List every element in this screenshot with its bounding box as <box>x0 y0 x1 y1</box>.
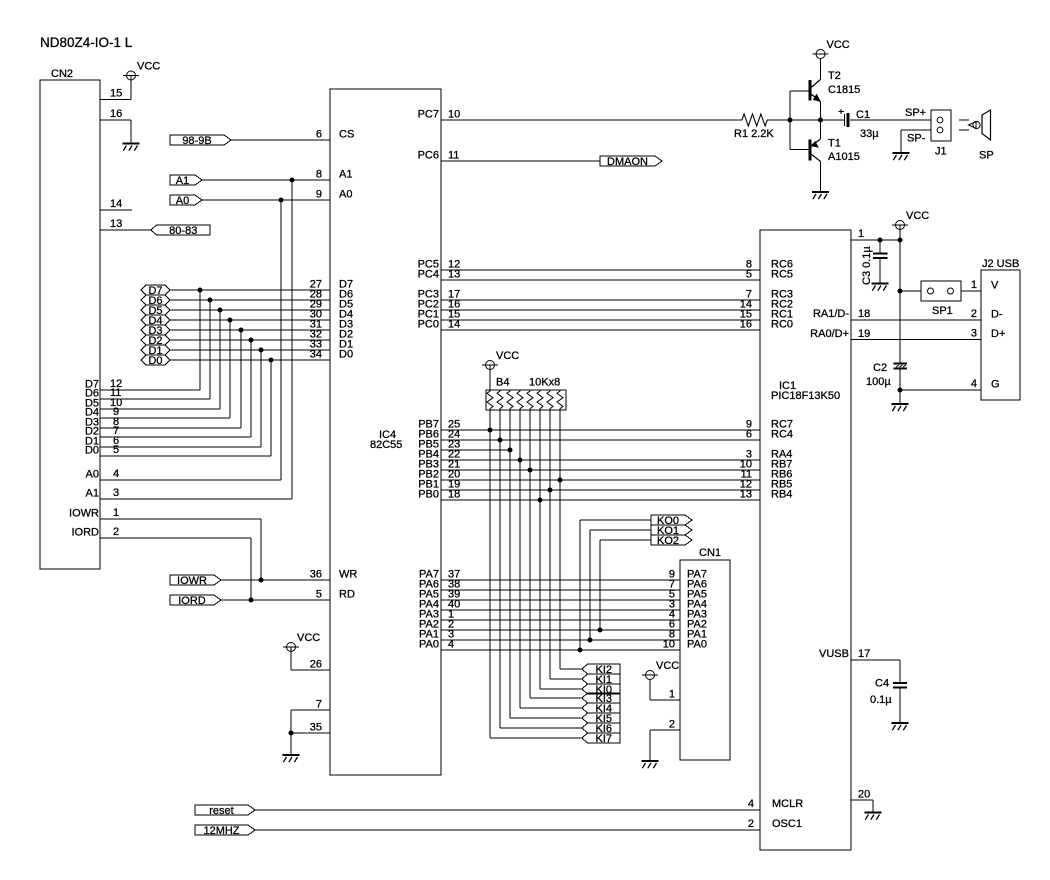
net label 12MHZ <box>195 825 255 837</box>
svg-text:IOWR: IOWR <box>69 508 99 520</box>
svg-text:SP1: SP1 <box>932 305 953 317</box>
svg-text:4: 4 <box>748 798 754 810</box>
svg-text:A1: A1 <box>339 169 352 181</box>
IC1 pin 5 (RC5) <box>746 269 793 281</box>
svg-text:33µ: 33µ <box>860 128 879 140</box>
IC4 pin 1 (PA3) <box>419 609 454 621</box>
wire B4 column x550 <box>549 410 551 679</box>
wire T2 emitter down <box>820 102 822 121</box>
IC4 pin 14 (PC0) <box>418 319 461 331</box>
capacitor C3 0.1u <box>861 240 888 285</box>
wire PA2 to CN1 <box>441 629 680 631</box>
wire T2 collector to VCC <box>820 59 822 80</box>
IC1 pin 3 (RA4) <box>746 449 793 461</box>
J2 pin 3 (D+) <box>971 328 1006 341</box>
junction R1/base <box>788 118 793 123</box>
wire KI7 <box>490 737 582 739</box>
wire D1 vertical <box>260 350 262 447</box>
IC U-IC1 PIC18F13K50 body <box>760 230 851 850</box>
wire to SP1 <box>900 290 921 292</box>
svg-text:IOWR: IOWR <box>177 575 207 587</box>
net label KI3 <box>582 693 620 705</box>
net label KI5 <box>582 713 620 725</box>
ground (SP-) <box>893 153 910 160</box>
svg-text:A1015: A1015 <box>828 151 860 163</box>
wire SP- from J1 <box>901 130 931 153</box>
CN2 pin 16 <box>100 108 131 120</box>
net label D5 <box>141 305 170 317</box>
connector SP1 <box>921 281 961 317</box>
svg-text:100µ: 100µ <box>866 376 891 388</box>
svg-text:A0: A0 <box>339 189 352 201</box>
IC4 pin 7 <box>316 699 322 711</box>
IC4 pin 21 (PB3) <box>418 459 460 471</box>
net label 98-9B <box>170 135 231 147</box>
svg-text:CN2: CN2 <box>51 68 73 80</box>
resistor R1 2.2K <box>734 114 774 140</box>
connector CN1 <box>680 547 730 760</box>
svg-text:MCLR: MCLR <box>772 798 803 810</box>
svg-text:T2: T2 <box>828 70 841 82</box>
wire SP1 to J2 pin1 <box>961 290 981 292</box>
svg-text:14: 14 <box>110 198 122 210</box>
wire KI6 <box>500 727 582 729</box>
CN2 pin 3 (A1) <box>86 487 292 500</box>
wire PC3-RC3 <box>441 299 760 301</box>
svg-text:CS: CS <box>339 129 354 141</box>
wire PC0-RC0 <box>441 329 760 331</box>
wire B4 column x490 <box>489 410 491 738</box>
svg-text:WR: WR <box>339 569 357 581</box>
IC4 pin 20 (PB2) <box>418 469 460 481</box>
svg-text:3: 3 <box>971 328 977 340</box>
wire KO2 <box>600 540 651 630</box>
wire PB7-RC7 <box>441 429 760 431</box>
svg-text:VCC: VCC <box>496 350 519 362</box>
svg-text:16: 16 <box>110 108 122 120</box>
speaker SP symbol <box>959 110 994 162</box>
junction D6 <box>208 298 213 303</box>
svg-text:10Kx8: 10Kx8 <box>529 377 560 389</box>
svg-text:26: 26 <box>310 659 322 671</box>
CN1 pin 8 (PA1) <box>669 629 707 641</box>
svg-text:IORD: IORD <box>178 595 206 607</box>
VCC symbol (IC1) <box>892 210 929 230</box>
IC4 pin 40 (PA4) <box>419 599 460 611</box>
wire T2 base <box>790 90 809 92</box>
svg-text:1: 1 <box>113 507 119 519</box>
connector J1 <box>931 110 951 158</box>
wire D5 vertical <box>219 310 221 409</box>
junction IC4 pin35 <box>289 731 294 736</box>
IC1 pin 17 (VUSB) <box>819 648 870 660</box>
IC1 pin 12 (RB5) <box>740 479 793 491</box>
svg-text:VCC: VCC <box>137 61 160 73</box>
svg-text:0.1µ: 0.1µ <box>870 694 892 706</box>
svg-text:SP: SP <box>979 150 994 162</box>
svg-text:VCC: VCC <box>656 660 679 672</box>
svg-text:D-: D- <box>991 309 1003 321</box>
wire RA1/D- to J2 <box>851 319 981 321</box>
svg-text:C1815: C1815 <box>828 84 860 96</box>
svg-text:SP+: SP+ <box>905 107 926 119</box>
CN2 pin 5 (D0) <box>85 444 271 457</box>
CN2 pin 13 <box>100 218 151 230</box>
svg-text:4: 4 <box>113 468 119 480</box>
svg-text:15: 15 <box>110 88 122 100</box>
ground (C4) <box>892 723 909 730</box>
IC4 pin 18 (PB0) <box>418 489 460 501</box>
svg-text:D0: D0 <box>148 355 162 367</box>
wire PC6 to DMAON <box>441 160 600 162</box>
svg-text:1: 1 <box>971 279 977 291</box>
svg-text:PB0: PB0 <box>418 489 439 501</box>
svg-text:A1: A1 <box>176 175 189 187</box>
svg-text:PC6: PC6 <box>418 150 439 162</box>
ground (CN1 pin 2) <box>642 761 659 768</box>
svg-text:35: 35 <box>310 722 322 734</box>
CN2 pin 6 (D1) <box>85 435 261 448</box>
net label D2 <box>141 335 170 347</box>
net label KI7 <box>582 733 620 745</box>
VCC symbol (B4) <box>482 350 519 370</box>
ground (IC1 pin 20) <box>865 813 882 820</box>
junction PA1/KO1 <box>588 638 593 643</box>
wire T1 base <box>790 149 809 151</box>
CN2 pin 4 (A0) <box>86 468 281 481</box>
svg-text:6: 6 <box>746 429 752 441</box>
svg-text:5: 5 <box>746 269 752 281</box>
svg-text:98-9B: 98-9B <box>182 135 211 147</box>
wire B4 column x560 <box>559 410 561 669</box>
VCC symbol (CN1 pin 1) <box>642 660 679 680</box>
wire KI4 <box>520 707 582 709</box>
net label D0 <box>141 355 170 367</box>
IC4 pin 2 (PA2) <box>419 619 454 631</box>
svg-text:34: 34 <box>310 349 322 361</box>
net label KO1 <box>651 525 692 537</box>
net label KI4 <box>582 703 620 715</box>
junction emitters <box>818 118 823 123</box>
svg-text:13: 13 <box>740 489 752 501</box>
wire KI3 <box>530 697 582 699</box>
CN2 pin 7 (D2) <box>85 425 251 438</box>
svg-text:R1 2.2K: R1 2.2K <box>734 128 774 140</box>
IC4 pin 6 (CS) <box>316 129 354 141</box>
net label D1 <box>141 345 170 357</box>
J2 pin 4 (G) <box>971 378 1000 391</box>
wire KI2 <box>560 668 582 670</box>
CN1 pin 7 (PA6) <box>669 579 707 591</box>
IC1 pin 18 (RA1/D-) <box>813 308 870 320</box>
IC4 pin 19 (PB1) <box>418 479 460 491</box>
junction SP1 tap <box>898 289 903 294</box>
svg-text:V: V <box>991 280 999 292</box>
svg-text:VCC: VCC <box>297 632 320 644</box>
wire D6 to IC4 pin 28 <box>170 299 330 301</box>
IC4 pin 30 (D4) <box>310 309 353 321</box>
svg-text:RD: RD <box>339 589 355 601</box>
CN1 pin 4 (PA3) <box>669 609 707 621</box>
svg-text:7: 7 <box>316 699 322 711</box>
svg-text:reset: reset <box>209 805 233 817</box>
junction A1 <box>290 178 295 183</box>
svg-text:12MHZ: 12MHZ <box>203 825 239 837</box>
wire A1 vertical <box>291 180 293 499</box>
CN1 pin 10 (PA0) <box>663 639 707 651</box>
net label A0 <box>170 195 202 207</box>
ground (C3) <box>872 284 889 291</box>
svg-text:RC5: RC5 <box>771 269 793 281</box>
wire PA0 to CN1 <box>441 649 680 651</box>
wire 98-9B to CS <box>231 139 330 141</box>
net label DMAON <box>600 156 662 168</box>
svg-text:D0: D0 <box>339 349 353 361</box>
svg-text:VCC: VCC <box>906 210 929 222</box>
svg-text:C4: C4 <box>875 678 889 690</box>
wire A1 to IC4 pin 8 <box>202 179 330 181</box>
svg-text:PC4: PC4 <box>418 269 439 281</box>
transistor T1 A1015 <box>810 138 860 164</box>
wire IORD vertical <box>250 538 252 600</box>
svg-text:1: 1 <box>669 689 675 701</box>
VCC symbol (IC4 pin 26) <box>283 632 320 652</box>
svg-text:VCC: VCC <box>827 39 850 51</box>
IC U-IC4 82C55 body <box>330 89 441 775</box>
svg-text:ND80Z4-IO-1 L: ND80Z4-IO-1 L <box>40 35 133 50</box>
wire A0 vertical <box>280 200 282 480</box>
wire B4 column x520 <box>519 410 521 708</box>
junction A0 <box>279 198 284 203</box>
wire KI1 <box>550 678 582 680</box>
net label KI0 <box>582 684 620 696</box>
wire D1 to IC4 pin 33 <box>170 349 330 351</box>
net SP- label <box>907 133 926 145</box>
IC1 pin 15 (RC1) <box>740 309 793 321</box>
wire pin16 to ground <box>130 120 132 144</box>
wire reset to MCLR <box>255 809 760 811</box>
wire D4 vertical <box>229 320 231 418</box>
connector CN2 <box>40 68 100 569</box>
title ND80Z4-IO-1 L <box>40 35 133 50</box>
capacitor C4 0.1u <box>870 678 907 707</box>
svg-text:C1: C1 <box>856 109 870 121</box>
IC4 pin 3 (PA1) <box>419 629 454 641</box>
svg-text:8: 8 <box>316 169 322 181</box>
CN2 pin 11 (D6) <box>85 387 210 400</box>
wire B4 column x510 <box>509 410 511 718</box>
connector J2 USB <box>981 258 1020 400</box>
svg-text:J1: J1 <box>935 146 947 158</box>
svg-text:RC0: RC0 <box>771 319 793 331</box>
junction D7 <box>198 288 203 293</box>
svg-text:1: 1 <box>858 228 864 240</box>
svg-text:RA1/D-: RA1/D- <box>813 308 849 320</box>
net label IORD <box>170 595 221 607</box>
IC1 pin 9 (RC7) <box>746 419 793 431</box>
IC4 pin 10 (PC7) <box>418 109 461 121</box>
wire T1 collector down <box>820 162 822 192</box>
svg-text:10: 10 <box>663 639 675 651</box>
CN2 pin 10 (D5) <box>85 397 220 410</box>
junction D4 <box>228 318 233 323</box>
IC4 pin 9 (A0) <box>316 189 353 201</box>
wire D0 vertical <box>270 360 272 456</box>
wire D6 vertical <box>209 300 211 399</box>
junction PA2/KO2 <box>598 628 603 633</box>
J2 pin 2 (D-) <box>971 308 1003 321</box>
J2 pin 1 (V) <box>971 279 999 292</box>
svg-text:3: 3 <box>113 487 119 499</box>
IC4 pin 24 (PB6) <box>418 429 460 441</box>
CN1 pin 3 (PA4) <box>669 599 707 611</box>
wire IOWR to IC4 pin 36 <box>221 579 330 581</box>
svg-text:9: 9 <box>316 189 322 201</box>
svg-text:OSC1: OSC1 <box>772 818 802 830</box>
svg-text:PA0: PA0 <box>419 639 439 651</box>
svg-text:C3 0.1µ: C3 0.1µ <box>861 246 873 285</box>
wire D0 to IC4 pin 34 <box>170 359 330 361</box>
IC4 pin 4 (PA0) <box>419 639 454 651</box>
VCC symbol (CN2 pin 15) <box>123 61 160 81</box>
wire PB3-RB7 <box>441 469 760 471</box>
wire IC4 pin 7 to ground <box>291 710 330 755</box>
wire PC5-RC6 <box>441 269 760 271</box>
wire PB6-RC4 <box>441 439 760 441</box>
IC4 pin 32 (D2) <box>310 329 353 341</box>
wire PB5 stub <box>441 449 510 451</box>
wire B4 column x530 <box>529 410 531 698</box>
wire PA5 to CN1 <box>441 599 680 601</box>
junction PB7/KI7 <box>488 428 493 433</box>
svg-text:16: 16 <box>740 319 752 331</box>
IC1 pin 13 (RB4) <box>740 489 793 501</box>
junction C3 tap <box>878 238 883 243</box>
wire VUSB to C4 <box>851 660 900 682</box>
IC4 pin 13 (PC4) <box>418 269 461 281</box>
svg-text:G: G <box>991 379 1000 391</box>
wire PC7 to R1 <box>441 119 742 121</box>
svg-text:A0: A0 <box>86 469 99 481</box>
wire D5 to IC4 pin 29 <box>170 309 330 311</box>
CN2 pin 8 (D3) <box>85 416 241 429</box>
svg-text:20: 20 <box>858 789 870 801</box>
svg-text:5: 5 <box>113 444 119 456</box>
IC4 pin 28 (D6) <box>310 289 353 301</box>
IC4 pin 17 (PC3) <box>418 289 461 301</box>
svg-text:RC4: RC4 <box>771 429 793 441</box>
wire IC4 pin 35 <box>291 732 330 734</box>
net label 80-83 <box>151 225 210 237</box>
svg-text:80-83: 80-83 <box>169 225 197 237</box>
transistor T2 C1815 <box>810 70 860 102</box>
wire D4 to IC4 pin 30 <box>170 319 330 321</box>
IC4 pin 16 (PC2) <box>418 299 461 311</box>
wire B4 column x540 <box>539 410 541 689</box>
wire G to J2 pin4 <box>900 389 981 391</box>
wire D3 to IC4 pin 31 <box>170 329 330 331</box>
CN2 pin 1 (IOWR) <box>69 507 261 520</box>
wire VCC to B4 <box>489 365 491 390</box>
junction PB5/KI5 <box>508 448 513 453</box>
svg-text:6: 6 <box>316 129 322 141</box>
svg-text:SP-: SP- <box>907 133 926 145</box>
junction D3 <box>239 328 244 333</box>
junction PA0/KO0 <box>578 648 583 653</box>
IC1 pin 14 (RC2) <box>740 299 793 311</box>
wire R1 to bases <box>767 119 844 121</box>
junction PB4/KI4 <box>518 458 523 463</box>
svg-text:2: 2 <box>669 719 675 731</box>
svg-text:18: 18 <box>858 308 870 320</box>
svg-text:10: 10 <box>448 109 460 121</box>
CN1 pin 6 (PA2) <box>669 619 707 631</box>
IC4 pin 29 (D5) <box>310 299 353 311</box>
CN1 pin 2 <box>650 719 680 762</box>
svg-text:VUSB: VUSB <box>819 648 849 660</box>
IC4 pin 39 (PA5) <box>419 589 460 601</box>
wire IOWR vertical <box>260 519 262 580</box>
wire PC2-RC2 <box>441 309 760 311</box>
junction PB6/KI6 <box>498 438 503 443</box>
wire RA0/D+ to J2 <box>851 339 981 341</box>
wire C4 to ground <box>899 689 901 723</box>
svg-text:CN1: CN1 <box>699 547 721 559</box>
IC4 pin 37 (PA7) <box>419 569 460 581</box>
IC1 pin 1 <box>851 228 900 240</box>
svg-text:PIC18F13K50: PIC18F13K50 <box>771 390 840 402</box>
wire IORD to IC4 pin 5 <box>221 599 330 601</box>
CN2 pin 9 (D4) <box>85 406 230 419</box>
junction PB0/KI0 <box>538 498 543 503</box>
wire PC4-RC5 <box>441 279 760 281</box>
svg-text:RB4: RB4 <box>771 489 792 501</box>
ground (IC4 pins 7/35) <box>283 755 300 762</box>
IC4 pin 27 (D7) <box>310 279 353 291</box>
wire B4 column x500 <box>499 410 501 728</box>
wire D2 vertical <box>250 340 252 437</box>
svg-text:A0: A0 <box>176 195 189 207</box>
svg-text:5: 5 <box>316 589 322 601</box>
wire D3 vertical <box>240 330 242 428</box>
junction D1 <box>259 348 264 353</box>
IC4 pin 26 <box>310 659 322 671</box>
wire 12MHZ to OSC1 <box>255 829 760 831</box>
wire PC1-RC1 <box>441 319 760 321</box>
svg-text:PA0: PA0 <box>687 639 707 651</box>
wire VCC rail <box>899 225 901 363</box>
wire PA1 to CN1 <box>441 639 680 641</box>
VCC symbol (T2) <box>813 39 850 59</box>
IC4 pin 38 (PA6) <box>419 579 460 591</box>
svg-text:2: 2 <box>113 526 119 538</box>
IC1 pin 20 <box>858 789 870 801</box>
IC4 pin 23 (PB5) <box>418 439 460 451</box>
wire T1 emitter up <box>820 120 822 139</box>
IC4 pin 11 (PC6) <box>418 150 460 162</box>
IC4 pin 33 (D1) <box>310 339 353 351</box>
wire pin15 to VCC <box>130 76 132 100</box>
svg-text:A1: A1 <box>86 488 99 500</box>
svg-text:RA0/D+: RA0/D+ <box>810 328 849 340</box>
wire PB0-RB4 <box>441 499 760 501</box>
net label KI6 <box>582 723 620 735</box>
wire KI5 <box>510 717 582 719</box>
wire VCC to IC4 pin 26 <box>291 647 330 670</box>
wire KO1 <box>590 530 651 640</box>
wire D7 vertical <box>199 290 201 390</box>
net label D7 <box>141 285 170 297</box>
